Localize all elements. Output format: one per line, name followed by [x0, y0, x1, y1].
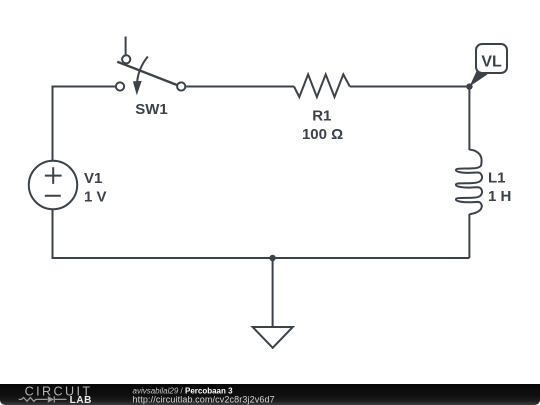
svg-text:L1: L1: [488, 169, 506, 186]
switch SW1 action arrow arc: [137, 57, 148, 83]
node dot at ground: [269, 255, 275, 261]
VL flag pointer: [469, 71, 487, 87]
svg-text:LAB: LAB: [70, 395, 92, 405]
ground triangle: [253, 327, 293, 348]
wire: node down to inductor: [468, 87, 470, 151]
switch SW1 top stub: [125, 37, 127, 55]
wire: switch right terminal to resistor: [185, 86, 294, 88]
wire: V1 bottom to bottom rail: [53, 209, 470, 258]
inductor L1 coil: [456, 150, 482, 215]
svg-text:R1: R1: [312, 108, 331, 125]
footer bar: [0, 384, 540, 405]
svg-text:1 H: 1 H: [488, 188, 511, 205]
resistor R1: [294, 74, 350, 97]
V1 minus sign: [45, 195, 61, 197]
svg-text:VL: VL: [481, 54, 502, 71]
svg-text:http://circuitlab.com/cv2c8r3j: http://circuitlab.com/cv2c8r3j2v6d7: [133, 395, 275, 405]
switch SW1 lever: [117, 62, 177, 85]
switch SW1 right terminal circle: [177, 82, 185, 90]
wire: V1 top to switch left terminal: [53, 87, 116, 161]
svg-text:V1: V1: [84, 170, 102, 187]
ground stub wire: [272, 258, 274, 327]
VL flag box: [476, 44, 507, 73]
switch SW1 arrow head: [133, 81, 142, 95]
voltage source V1 circle: [29, 161, 77, 209]
svg-text:SW1: SW1: [135, 101, 168, 118]
wire: resistor to node VL: [350, 86, 470, 88]
logo waveform zigzag and diode: [19, 396, 67, 402]
switch SW1 left terminal circle: [116, 82, 124, 90]
V1 plus sign: [45, 167, 62, 184]
svg-text:1 V: 1 V: [84, 188, 107, 205]
node dot at VL: [466, 83, 472, 89]
switch SW1 top terminal circle: [122, 55, 130, 63]
svg-text:100 Ω: 100 Ω: [302, 126, 343, 143]
wire: inductor to bottom rail: [468, 214, 470, 258]
